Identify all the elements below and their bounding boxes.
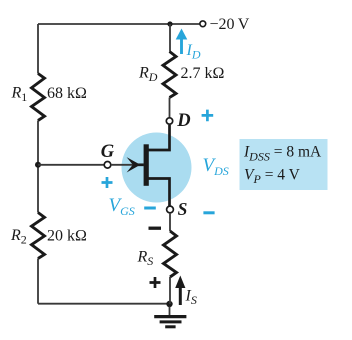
- terminal node -20V (open circle): [200, 21, 206, 27]
- svg-text:IS: IS: [185, 288, 197, 308]
- wire RD to node D: [169, 98, 171, 118]
- svg-text:20 kΩ: 20 kΩ: [47, 228, 87, 245]
- wire gate horizontal from left branch to node G: [38, 164, 104, 166]
- junction dot at bottom of source branch: [166, 301, 172, 307]
- junction dot at gate wire / left branch: [35, 162, 41, 168]
- svg-text:−20 V: −20 V: [210, 16, 250, 33]
- node D (open circle): [166, 118, 172, 124]
- wire left vertical middle (R1 to R2): [37, 121, 39, 213]
- wire node S to RS: [169, 213, 171, 231]
- plus sign of VDS (blue): [202, 110, 214, 122]
- plus sign below RS (black): [150, 277, 161, 288]
- plus sign of VGS (blue): [102, 177, 113, 188]
- info box background: [240, 139, 328, 190]
- svg-text:D: D: [176, 111, 190, 131]
- minus sign of VGS (blue): [144, 207, 156, 210]
- svg-text:R2: R2: [10, 227, 27, 247]
- transistor Q1 (JFET): [127, 125, 170, 207]
- wire stub to -20V terminal: [170, 23, 200, 25]
- minus sign of VDS (blue): [203, 211, 214, 214]
- svg-text:2.7 kΩ: 2.7 kΩ: [181, 65, 225, 82]
- wire right vertical top (junction to RD): [169, 24, 171, 52]
- minus sign above RS (black): [149, 227, 162, 230]
- node S (open circle): [167, 206, 174, 213]
- svg-text:S: S: [178, 199, 188, 219]
- current arrow ID (blue, pointing up): [176, 29, 188, 55]
- resistor R2 zigzag: [32, 213, 45, 259]
- wire gate horizontal from node G to transistor: [111, 164, 135, 166]
- resistor RS zigzag: [164, 231, 177, 277]
- svg-text:VP = 4 V: VP = 4 V: [244, 166, 301, 186]
- current arrow IS (black, pointing up): [175, 276, 185, 306]
- transistor Q1 highlight circle: [122, 133, 192, 203]
- wire left vertical lower (R2 to bottom wire): [37, 259, 39, 304]
- wire bottom horizontal: [38, 303, 170, 305]
- junction dot at top of drain branch: [167, 21, 172, 26]
- svg-text:ID: ID: [186, 42, 201, 62]
- svg-text:VDS: VDS: [203, 155, 229, 178]
- svg-text:R1: R1: [11, 85, 28, 105]
- svg-text:RS: RS: [137, 249, 154, 269]
- wire RS to bottom junction: [169, 277, 171, 304]
- svg-text:RD: RD: [138, 65, 158, 85]
- wire left vertical upper (top wire to R1): [37, 24, 39, 74]
- svg-text:68 kΩ: 68 kΩ: [47, 85, 87, 102]
- wire top horizontal (left branch to drain branch): [38, 23, 170, 25]
- svg-text:VGS: VGS: [109, 195, 135, 218]
- node G (open circle): [104, 162, 111, 169]
- resistor RD zigzag: [163, 52, 176, 98]
- resistor R1 zigzag: [32, 74, 45, 121]
- ground symbol: [154, 307, 186, 327]
- svg-text:G: G: [101, 142, 115, 162]
